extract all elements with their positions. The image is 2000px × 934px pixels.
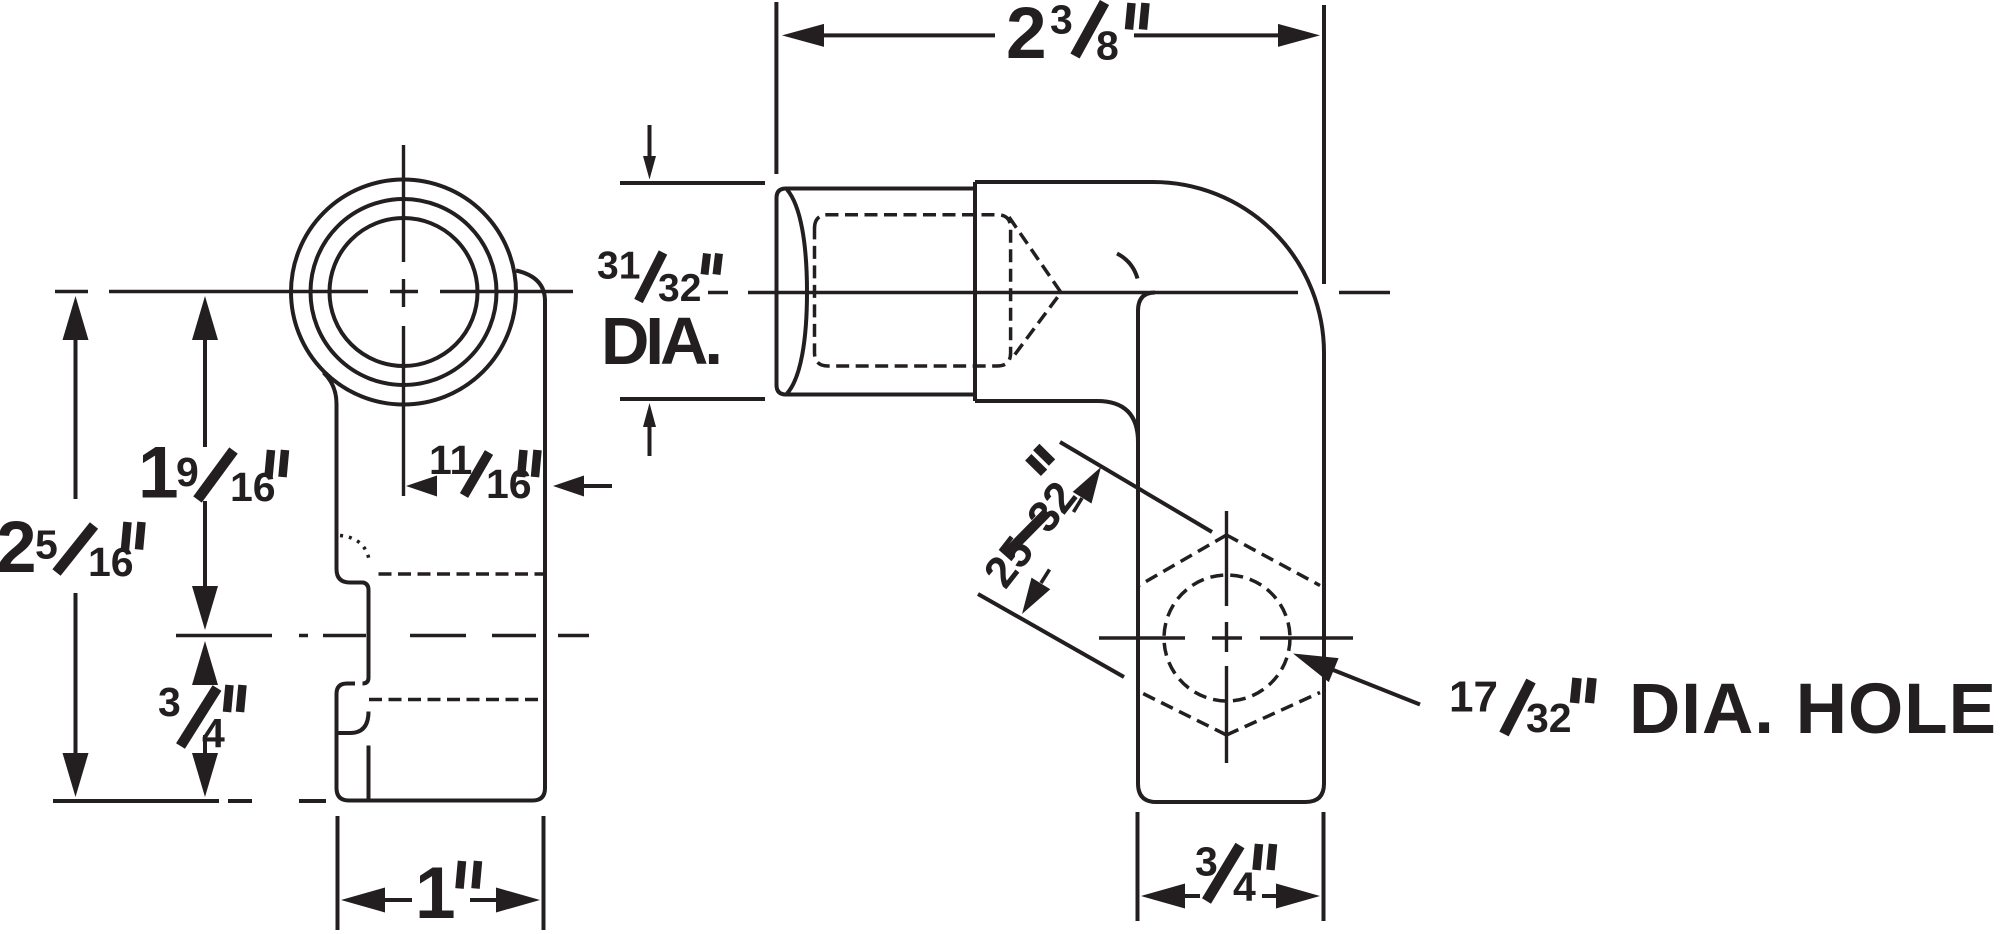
- svg-text:31: 31: [597, 245, 640, 288]
- svg-text:2: 2: [1006, 0, 1047, 74]
- svg-text:11: 11: [429, 437, 472, 483]
- svg-text:DIA. HOLE: DIA. HOLE: [1629, 670, 1996, 749]
- svg-text:5: 5: [35, 522, 58, 568]
- svg-text:1: 1: [138, 433, 179, 514]
- svg-text:2: 2: [0, 507, 37, 588]
- svg-text:17: 17: [1449, 673, 1498, 722]
- svg-text:DIA.: DIA.: [601, 304, 723, 379]
- svg-text:3: 3: [1195, 839, 1218, 885]
- svg-text:3: 3: [1050, 0, 1073, 43]
- svg-text:4: 4: [202, 710, 225, 756]
- svg-text:3: 3: [158, 679, 181, 725]
- svg-text:4: 4: [1233, 864, 1256, 910]
- svg-text:1: 1: [415, 853, 456, 934]
- svg-text:9: 9: [176, 449, 199, 495]
- svg-text:8: 8: [1096, 23, 1119, 69]
- svg-text:32: 32: [1526, 695, 1572, 741]
